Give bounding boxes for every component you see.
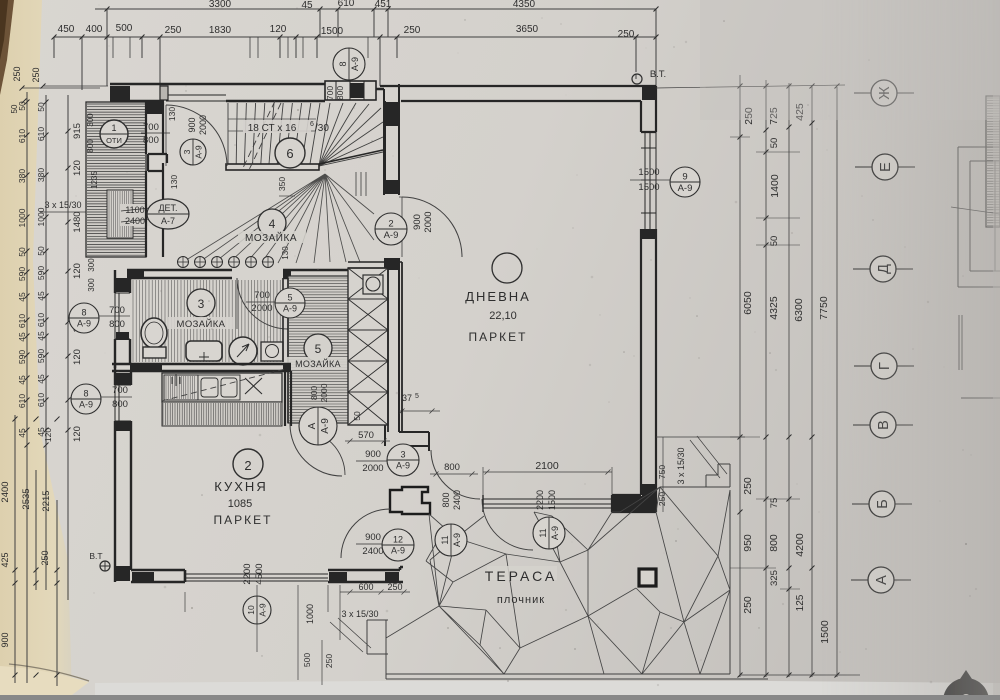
inner vertical-hatch closet in block xyxy=(107,190,133,238)
counter front hatch band xyxy=(162,402,282,426)
svg-text:610: 610 xyxy=(17,129,27,143)
adjacent sheet diagonal xyxy=(951,207,1000,214)
svg-text:ОТИ: ОТИ xyxy=(106,136,122,145)
svg-text:МОЗАЙКА: МОЗАЙКА xyxy=(177,318,226,330)
svg-text:45: 45 xyxy=(36,374,46,384)
svg-text:800: 800 xyxy=(109,319,125,330)
svg-text:900: 900 xyxy=(365,532,381,543)
svg-text:1085: 1085 xyxy=(228,498,252,510)
bottom-left paper fold corner xyxy=(0,666,89,695)
svg-text:1000: 1000 xyxy=(305,604,315,624)
svg-text:120: 120 xyxy=(72,426,83,442)
svg-text:5: 5 xyxy=(315,342,322,356)
stairwell right wall xyxy=(384,84,399,195)
svg-text:8: 8 xyxy=(81,308,86,318)
room bubble 4 and mosaic label xyxy=(258,209,286,237)
svg-text:/30: /30 xyxy=(315,123,329,134)
svg-text:6: 6 xyxy=(310,121,314,128)
svg-text:750: 750 xyxy=(657,465,667,479)
living room bubble (blank) xyxy=(492,253,522,283)
svg-text:4: 4 xyxy=(269,217,276,231)
top exterior wall of stair block xyxy=(110,84,384,101)
svg-text:800: 800 xyxy=(86,139,95,153)
svg-text:ПАРКЕТ: ПАРКЕТ xyxy=(214,513,273,527)
dim 2100 above terrace windows xyxy=(483,470,612,475)
svg-text:610: 610 xyxy=(17,314,27,328)
svg-text:В.Т.: В.Т. xyxy=(650,69,666,80)
svg-text:А-9: А-9 xyxy=(391,546,405,556)
room5 bubble 5 xyxy=(304,334,332,362)
hatch marks right of landing xyxy=(356,172,366,196)
svg-text:50: 50 xyxy=(352,411,362,421)
svg-text:610: 610 xyxy=(36,127,46,141)
stair landing bar xyxy=(226,164,319,170)
kitchen bottom wall right segment xyxy=(328,567,403,582)
svg-text:800: 800 xyxy=(112,399,128,410)
hall top-left door arc 3/A-9 xyxy=(166,105,227,166)
svg-text:А-9: А-9 xyxy=(194,145,204,159)
svg-text:3: 3 xyxy=(400,450,405,460)
grid bubble 8/A-9 top xyxy=(333,48,365,80)
svg-text:451: 451 xyxy=(375,0,392,10)
svg-text:120: 120 xyxy=(72,263,83,279)
svg-text:4325: 4325 xyxy=(768,296,780,320)
toilet xyxy=(141,318,167,348)
svg-text:А-7: А-7 xyxy=(161,216,175,226)
stair dashed cut line xyxy=(242,101,281,172)
svg-text:1500: 1500 xyxy=(638,167,659,178)
bubble 10/A-9 below kitchen window xyxy=(243,596,271,624)
svg-text:2000: 2000 xyxy=(319,383,329,402)
kitchen bottom window band xyxy=(185,574,328,581)
svg-text:450: 450 xyxy=(58,24,75,35)
adjacent sheet hatched block right edge xyxy=(986,96,1000,227)
kitchen counter row xyxy=(162,373,282,402)
svg-text:2535: 2535 xyxy=(21,488,32,509)
right chain ticks xyxy=(738,84,840,678)
bubble 11/A-9 rotated left xyxy=(435,524,467,556)
svg-text:250: 250 xyxy=(404,25,421,36)
kitchen window left 700/800 xyxy=(115,385,131,421)
svg-text:45: 45 xyxy=(36,291,46,301)
svg-text:250: 250 xyxy=(31,67,41,82)
svg-text:8: 8 xyxy=(83,389,88,399)
svg-text:МОЗАЙКА: МОЗАЙКА xyxy=(295,358,341,369)
svg-text:120: 120 xyxy=(270,24,287,35)
hall left wall with niche xyxy=(146,102,167,171)
svg-text:400: 400 xyxy=(86,24,103,35)
svg-text:800: 800 xyxy=(335,86,345,100)
svg-text:А-9: А-9 xyxy=(320,418,331,434)
door arc 12/A-9 kitchen-terrace xyxy=(341,509,390,558)
svg-text:45: 45 xyxy=(17,375,27,385)
closet diamond column xyxy=(348,268,388,425)
svg-text:3300: 3300 xyxy=(209,0,232,10)
svg-text:610: 610 xyxy=(338,0,355,9)
stair upper flight treads xyxy=(228,103,320,164)
right chain cross hints xyxy=(730,137,800,589)
svg-text:250: 250 xyxy=(742,596,754,614)
dims above terrace right xyxy=(656,436,745,438)
grid bubble 8/A-9 left lower xyxy=(71,384,101,414)
room5 horizontal hatch floor xyxy=(288,276,349,423)
svg-text:425: 425 xyxy=(0,552,10,567)
svg-text:3: 3 xyxy=(198,297,205,311)
terrace top edge near living corner xyxy=(656,487,660,512)
bathroom window left 700/800 xyxy=(115,293,130,339)
terrace paving mesh xyxy=(386,487,730,674)
svg-text:380: 380 xyxy=(36,168,46,182)
wall elbow living/kitchen junction xyxy=(399,432,429,451)
svg-text:4350: 4350 xyxy=(513,0,536,10)
bathroom top wall xyxy=(127,270,349,278)
adjacent sheet rectangles xyxy=(958,147,1000,287)
VT marker bottom left xyxy=(100,561,110,571)
svg-text:18 СТ х 16: 18 СТ х 16 xyxy=(248,123,297,134)
svg-text:570: 570 xyxy=(358,430,374,441)
closet top unit square with circle xyxy=(363,275,383,294)
svg-text:900: 900 xyxy=(365,449,381,460)
svg-text:1500: 1500 xyxy=(638,182,659,193)
grid bubble 8/A-9 left upper xyxy=(69,303,99,333)
svg-text:300: 300 xyxy=(87,258,96,272)
svg-text:590: 590 xyxy=(36,266,46,280)
svg-text:500: 500 xyxy=(302,653,312,667)
svg-text:900: 900 xyxy=(187,117,197,132)
axis bubble Г xyxy=(854,365,871,367)
dimension line top row 2 xyxy=(54,37,656,90)
svg-text:610: 610 xyxy=(36,313,46,327)
svg-text:ТЕРАСА: ТЕРАСА xyxy=(485,568,557,584)
axis bubble А xyxy=(851,579,868,581)
svg-text:3650: 3650 xyxy=(516,24,539,35)
grid bubble 9/A-9 right window xyxy=(670,167,700,197)
kitchen right wall xyxy=(285,371,291,426)
svg-text:ДЕТ.: ДЕТ. xyxy=(158,203,177,213)
svg-text:А-9: А-9 xyxy=(77,319,91,329)
lower winder treads radiating through hall xyxy=(183,174,374,263)
svg-text:А: А xyxy=(307,422,318,429)
svg-text:3 х 15/30: 3 х 15/30 xyxy=(44,200,81,210)
OTI room bubble 1 xyxy=(100,120,128,148)
svg-text:250: 250 xyxy=(618,29,635,40)
svg-text:ДНЕВНА: ДНЕВНА xyxy=(465,289,531,304)
svg-text:2200: 2200 xyxy=(242,563,253,584)
svg-text:50: 50 xyxy=(36,246,46,256)
axis bubble В xyxy=(853,424,870,426)
svg-text:5: 5 xyxy=(415,393,419,400)
svg-text:120: 120 xyxy=(72,349,83,365)
svg-text:50: 50 xyxy=(769,236,780,247)
left chain ticks xyxy=(13,100,71,678)
paper speckles xyxy=(353,107,355,109)
svg-text:600: 600 xyxy=(358,582,373,592)
svg-text:300: 300 xyxy=(86,113,95,127)
svg-text:А-9: А-9 xyxy=(678,183,693,194)
svg-text:45: 45 xyxy=(36,331,46,341)
svg-text:3: 3 xyxy=(182,149,192,154)
svg-text:8: 8 xyxy=(338,61,348,66)
axis bubble Д xyxy=(853,268,870,270)
svg-text:250: 250 xyxy=(165,25,182,36)
fridge unit with fine vertical lines xyxy=(164,375,198,400)
svg-text:915: 915 xyxy=(72,123,83,139)
bathroom room bubble 3 xyxy=(187,289,215,317)
A/A-9 bubble xyxy=(299,407,337,445)
svg-text:250: 250 xyxy=(324,654,334,668)
counter middle unit xyxy=(198,375,240,400)
svg-text:6300: 6300 xyxy=(793,298,805,322)
svg-text:130: 130 xyxy=(169,175,179,189)
terrace right edge xyxy=(642,464,730,674)
living room right wall lower xyxy=(641,229,656,512)
bottom dims under kitchen xyxy=(298,585,340,685)
svg-text:А-9: А-9 xyxy=(384,230,399,241)
svg-text:1: 1 xyxy=(111,123,116,133)
hatched wall block left (OTI shaft) xyxy=(86,102,146,257)
faint fold line right xyxy=(993,0,1000,695)
svg-text:50: 50 xyxy=(769,138,780,149)
bathroom left exterior wall xyxy=(115,270,130,368)
svg-text:1480: 1480 xyxy=(72,211,83,232)
bubble 11/A-9 rotated right xyxy=(533,517,565,549)
window right 1500/1500 xyxy=(641,132,656,229)
boiler circle N xyxy=(229,337,257,365)
dashed diagonal across counter xyxy=(162,369,285,401)
svg-text:800: 800 xyxy=(309,386,319,400)
north arrow bottom right xyxy=(943,678,989,700)
svg-text:37: 37 xyxy=(402,393,412,403)
svg-text:11: 11 xyxy=(440,535,450,544)
strikethrough dim 1100/2400 xyxy=(120,204,150,226)
room5 door arc 5/A-9 xyxy=(237,278,288,329)
svg-text:50: 50 xyxy=(36,102,46,112)
bathroom floor hatch xyxy=(133,280,280,362)
svg-text:800: 800 xyxy=(768,534,780,552)
svg-text:45: 45 xyxy=(17,428,27,438)
svg-text:плочник: плочник xyxy=(497,594,545,606)
svg-text:1830: 1830 xyxy=(209,25,232,36)
axis bubble Б xyxy=(852,503,869,505)
svg-text:610: 610 xyxy=(17,394,27,408)
svg-text:120: 120 xyxy=(72,160,83,176)
closet right wall xyxy=(388,262,402,432)
living room top wall xyxy=(380,86,656,101)
svg-text:250: 250 xyxy=(40,550,50,565)
svg-text:45: 45 xyxy=(301,0,313,11)
terrace right small dims 750/250 xyxy=(662,437,664,512)
svg-text:250: 250 xyxy=(12,66,22,81)
terrace left step rect xyxy=(367,620,388,679)
axis bubble Е xyxy=(855,166,872,168)
svg-text:380: 380 xyxy=(17,169,27,183)
svg-text:МОЗАЙКА: МОЗАЙКА xyxy=(245,231,297,244)
svg-text:45: 45 xyxy=(17,292,27,302)
svg-text:1500: 1500 xyxy=(547,490,557,510)
svg-text:250: 250 xyxy=(387,582,402,592)
terrace labels xyxy=(487,566,557,580)
svg-text:2400: 2400 xyxy=(362,546,383,557)
svg-text:6: 6 xyxy=(286,146,293,161)
stair fan right of landing xyxy=(319,103,383,166)
stove with X xyxy=(245,378,262,394)
entry pier zigzag between kitchen and terrace doors xyxy=(386,487,403,567)
slight vignette top right xyxy=(700,0,1000,120)
svg-text:2000: 2000 xyxy=(198,115,208,135)
right chain top horizontal xyxy=(656,85,845,88)
svg-text:А-9: А-9 xyxy=(452,533,462,547)
dim 570 under closet xyxy=(345,439,390,444)
svg-text:500: 500 xyxy=(116,23,133,34)
heating pipe circles row xyxy=(178,257,189,268)
svg-text:А-9: А-9 xyxy=(550,526,560,540)
svg-text:2000: 2000 xyxy=(423,211,434,232)
kitchen door arcs A/A-9 xyxy=(290,424,342,476)
svg-text:75: 75 xyxy=(769,498,780,509)
svg-text:4500: 4500 xyxy=(254,563,265,584)
kitchen top wall xyxy=(112,364,291,371)
svg-text:4200: 4200 xyxy=(794,533,806,557)
svg-text:2000: 2000 xyxy=(362,463,383,474)
door living room from hall 2/A-9 xyxy=(402,197,462,257)
svg-text:А-9: А-9 xyxy=(396,461,410,471)
svg-text:В.Т: В.Т xyxy=(89,551,102,561)
svg-text:КУХНЯ: КУХНЯ xyxy=(214,479,267,494)
svg-text:950: 950 xyxy=(742,534,754,552)
svg-text:2: 2 xyxy=(244,458,251,473)
kitchen bottom wall xyxy=(131,570,185,582)
svg-text:800: 800 xyxy=(444,462,460,473)
svg-text:325: 325 xyxy=(769,570,780,586)
left wall of living room (hall side) xyxy=(385,101,399,432)
living room bottom-right corner wall xyxy=(612,495,656,512)
room5 door bubble 5/A-9 xyxy=(275,288,305,318)
cream left band of older paper xyxy=(0,0,72,695)
svg-text:350: 350 xyxy=(277,177,287,191)
svg-text:22,10: 22,10 xyxy=(489,310,517,322)
svg-text:3 х 15/30: 3 х 15/30 xyxy=(676,447,686,484)
axis bubble Ж xyxy=(854,92,871,94)
right chain vertical lines xyxy=(740,75,837,677)
svg-text:2215: 2215 xyxy=(41,490,52,511)
svg-text:2: 2 xyxy=(388,219,393,230)
small unit with circle xyxy=(261,342,283,361)
svg-text:А-9: А-9 xyxy=(350,57,360,71)
svg-text:590: 590 xyxy=(36,349,46,363)
svg-text:1500: 1500 xyxy=(321,26,344,37)
svg-text:5: 5 xyxy=(287,293,292,303)
adjacent sheet lower lines xyxy=(959,315,1000,398)
svg-text:ПАРКЕТ: ПАРКЕТ xyxy=(469,330,528,344)
svg-text:12: 12 xyxy=(393,535,403,545)
door arc 3/A-9 living-terrace xyxy=(431,450,480,499)
left dimension chain lines xyxy=(15,92,68,686)
dimension line top row 1 xyxy=(95,9,656,88)
kitchen room bubble 2 + labels xyxy=(233,449,263,479)
svg-text:900: 900 xyxy=(412,214,423,230)
kitchen left exterior wall xyxy=(115,364,131,582)
svg-text:590: 590 xyxy=(17,267,27,281)
svg-text:2400: 2400 xyxy=(452,490,462,510)
svg-text:130: 130 xyxy=(281,246,290,260)
living room bottom window band to terrace xyxy=(483,499,612,508)
svg-text:1400: 1400 xyxy=(769,174,781,198)
svg-text:590: 590 xyxy=(17,350,27,364)
svg-text:2200: 2200 xyxy=(535,490,545,510)
stair flight number bubble 6 xyxy=(275,138,305,168)
DET A-7 ellipse label xyxy=(147,199,189,229)
svg-text:250: 250 xyxy=(657,492,667,506)
svg-text:125: 125 xyxy=(795,594,806,611)
wall between bathroom and room5 xyxy=(283,278,288,423)
svg-text:3 х 15/30: 3 х 15/30 xyxy=(341,609,378,619)
door arc living-terrace right xyxy=(482,499,533,550)
svg-text:А-9: А-9 xyxy=(79,400,93,410)
solid pier at top-left wall end xyxy=(110,86,130,100)
washbasin xyxy=(186,341,222,361)
svg-text:45: 45 xyxy=(17,332,27,342)
svg-text:250: 250 xyxy=(742,477,754,495)
dark scan corner top-left xyxy=(0,0,14,95)
svg-text:10: 10 xyxy=(246,605,256,615)
terrace boundary bottom xyxy=(386,678,768,680)
svg-text:700: 700 xyxy=(112,385,128,396)
svg-text:1000: 1000 xyxy=(17,208,27,227)
svg-text:120: 120 xyxy=(43,428,53,442)
svg-text:800: 800 xyxy=(441,492,451,507)
svg-text:50: 50 xyxy=(17,247,27,257)
svg-text:50: 50 xyxy=(17,101,27,111)
svg-text:300: 300 xyxy=(87,278,96,292)
terrace drain square xyxy=(639,569,656,586)
stair note 18 steps xyxy=(243,120,311,133)
svg-text:1235: 1235 xyxy=(90,171,99,189)
VT vent marker top right xyxy=(632,74,642,84)
living room right wall upper xyxy=(641,86,656,132)
chimney block top xyxy=(325,81,376,100)
svg-text:А-9: А-9 xyxy=(283,304,297,314)
svg-text:9: 9 xyxy=(682,172,687,183)
svg-text:11: 11 xyxy=(538,528,548,537)
svg-text:А-9: А-9 xyxy=(258,603,268,617)
svg-text:6050: 6050 xyxy=(742,291,754,315)
svg-text:700: 700 xyxy=(325,86,335,100)
svg-text:2400: 2400 xyxy=(0,481,11,502)
svg-text:1000: 1000 xyxy=(36,207,46,226)
svg-text:900: 900 xyxy=(0,632,10,647)
svg-text:2100: 2100 xyxy=(535,460,559,472)
svg-text:700: 700 xyxy=(109,305,125,316)
svg-text:610: 610 xyxy=(36,393,46,407)
bottom paper strip lighter xyxy=(95,681,1000,695)
